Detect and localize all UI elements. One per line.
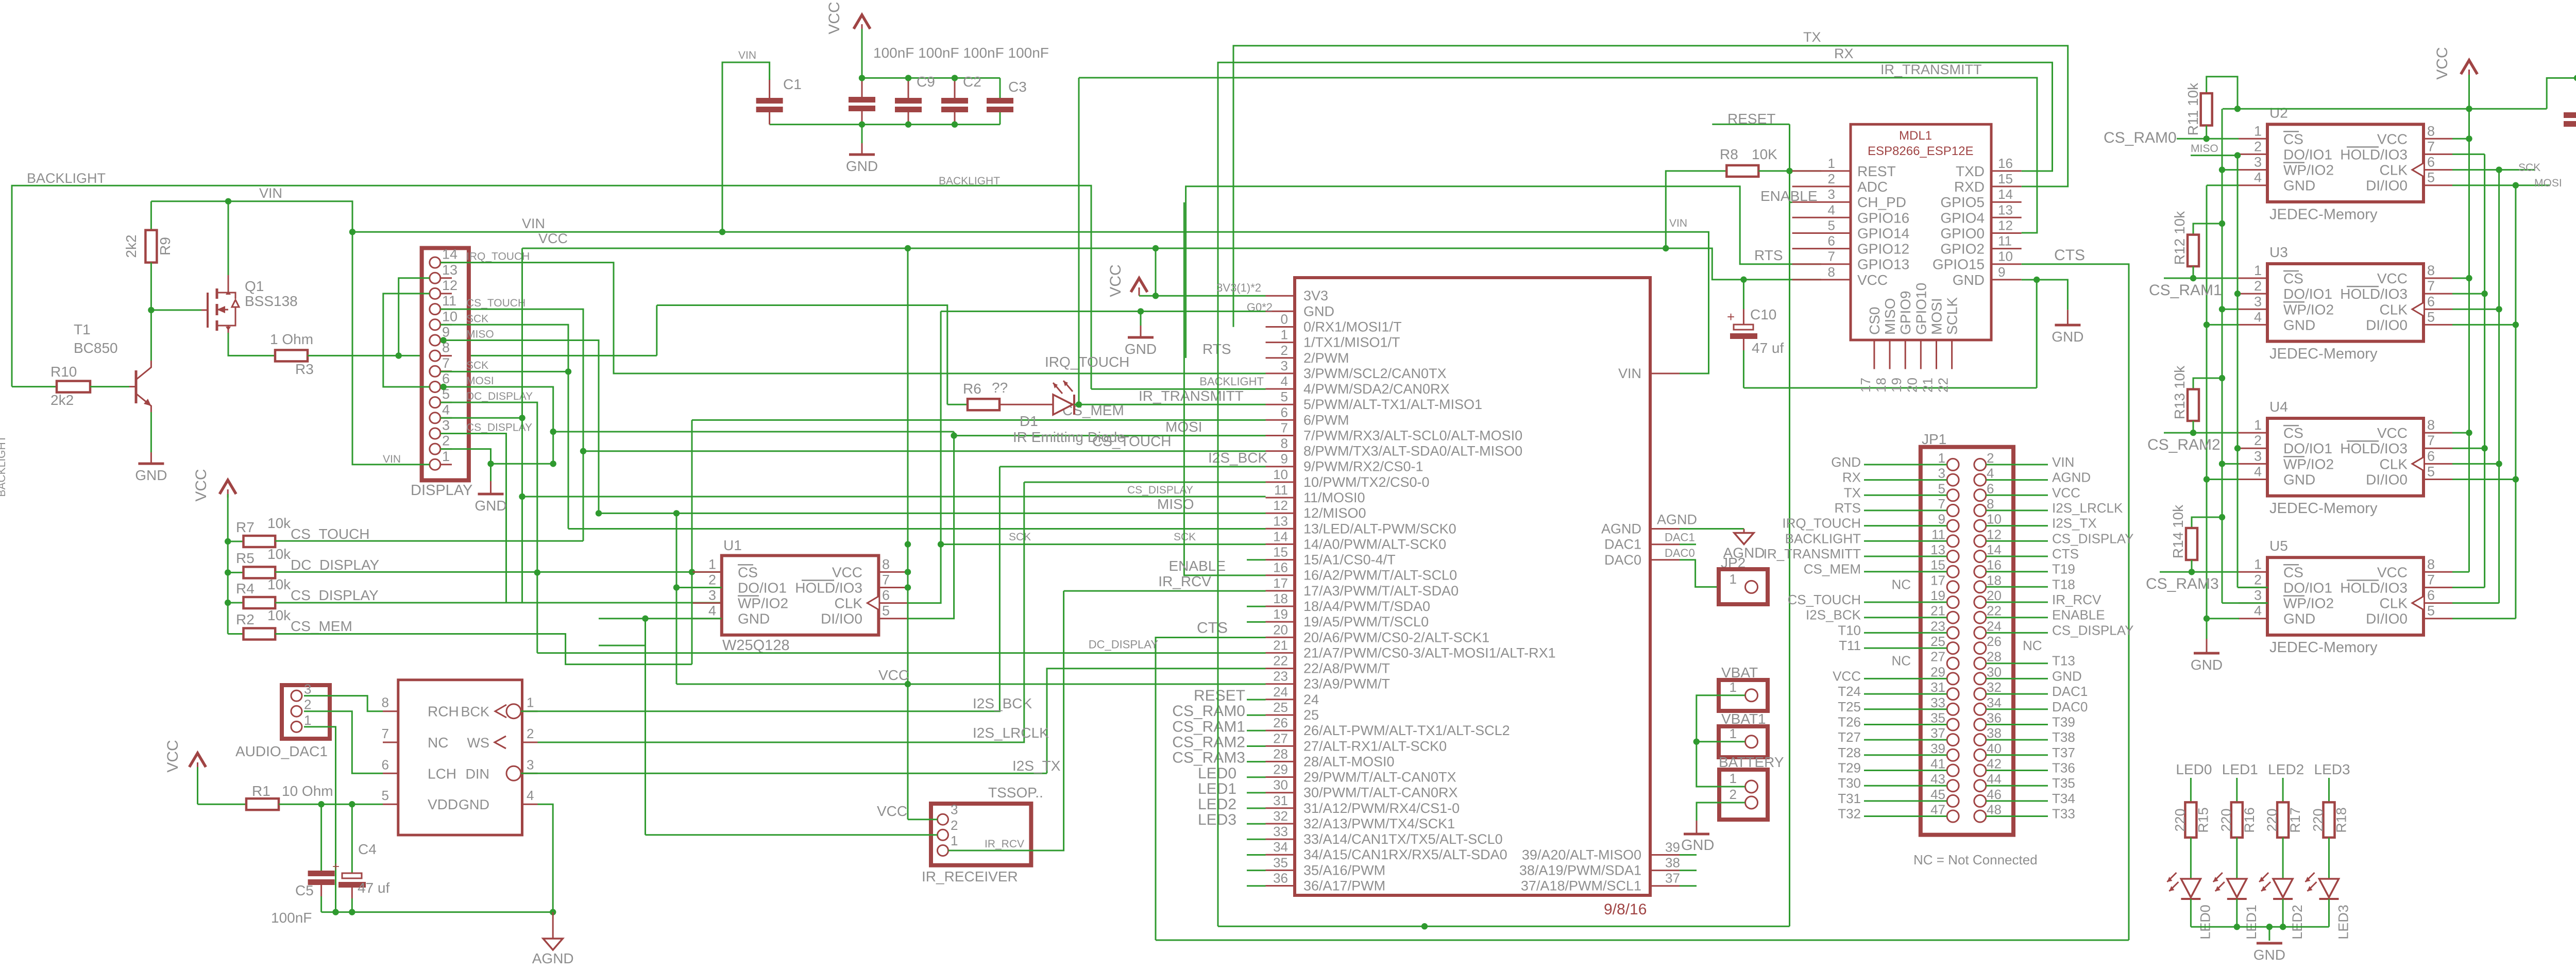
capacitor C9 bbox=[908, 78, 909, 98]
svg-text:33: 33 bbox=[1273, 824, 1288, 839]
svg-text:GPIO9: GPIO9 bbox=[1897, 291, 1913, 335]
MCU row 5/PWM/ALT-TX1/ALT-MISO1 bbox=[1266, 404, 1295, 405]
bottom bus A AGND loop bbox=[1217, 343, 1219, 926]
svg-text:2: 2 bbox=[1987, 450, 1994, 466]
svg-text:GPIO12: GPIO12 bbox=[1857, 241, 1909, 257]
svg-text:C3: C3 bbox=[1008, 79, 1027, 95]
JP1 row 5/6 bbox=[1947, 489, 1959, 501]
wire D1 to MCU pin5 bbox=[1074, 404, 1266, 405]
MCU row 15/A1/CS0-4/T bbox=[1266, 559, 1295, 560]
svg-text:17: 17 bbox=[1930, 572, 1945, 588]
wire IR receiver pin2 bbox=[646, 834, 938, 836]
svg-text:10K: 10K bbox=[1752, 146, 1777, 162]
wire I2S_LRCLK bbox=[538, 482, 1024, 742]
transistor Q1 BSS138 nmos bbox=[207, 293, 209, 328]
MCU row 4/PWM/SDA2/CAN0RX bbox=[1266, 388, 1295, 390]
svg-text:LED3: LED3 bbox=[2314, 761, 2350, 777]
svg-text:LED2: LED2 bbox=[2290, 905, 2305, 940]
svg-text:40: 40 bbox=[1987, 741, 2002, 756]
svg-text:3: 3 bbox=[1938, 466, 1945, 481]
resistor R10 2k2 bbox=[12, 386, 57, 387]
svg-text:IR_RCV: IR_RCV bbox=[985, 838, 1024, 850]
svg-text:14: 14 bbox=[1987, 542, 2002, 557]
U1 pin 8 VCC bbox=[878, 571, 908, 573]
audio DAC pin 3 DIN bbox=[522, 773, 538, 774]
svg-text:3: 3 bbox=[2254, 294, 2262, 309]
svg-text:RX: RX bbox=[1842, 470, 1861, 485]
wire IRQ_TOUCH from pin14 bbox=[440, 263, 1266, 373]
svg-text:1: 1 bbox=[527, 695, 534, 710]
svg-text:4: 4 bbox=[1987, 466, 1994, 481]
svg-text:8: 8 bbox=[882, 556, 890, 572]
svg-text:11: 11 bbox=[442, 293, 456, 309]
svg-text:VCC: VCC bbox=[832, 564, 862, 580]
svg-text:1: 1 bbox=[951, 833, 958, 848]
JP1 row 35/36 bbox=[1947, 719, 1959, 730]
resistor R15 220 bbox=[2185, 802, 2196, 837]
svg-text:LED0: LED0 bbox=[2176, 761, 2212, 777]
svg-text:39: 39 bbox=[1665, 840, 1680, 855]
svg-text:GND: GND bbox=[2283, 472, 2315, 488]
wire MOSI row to MCU bbox=[954, 435, 1266, 436]
svg-text:MISO: MISO bbox=[466, 329, 494, 341]
AGND symbol bbox=[1743, 529, 1745, 533]
svg-text:T1: T1 bbox=[74, 321, 91, 337]
wire SCK pin10 bbox=[440, 325, 568, 529]
svg-text:10 Ohm: 10 Ohm bbox=[282, 783, 333, 799]
svg-text:U5: U5 bbox=[2269, 538, 2288, 554]
wire CS_MEM row bbox=[275, 634, 692, 665]
wire CS_RAM2 bbox=[2164, 432, 2239, 434]
svg-text:5: 5 bbox=[2427, 464, 2435, 480]
svg-text:DIN: DIN bbox=[466, 766, 490, 781]
svg-text:CLK: CLK bbox=[2380, 301, 2408, 317]
svg-text:3: 3 bbox=[527, 757, 534, 772]
svg-text:3V3: 3V3 bbox=[1303, 288, 1328, 303]
svg-text:13: 13 bbox=[1930, 542, 1945, 557]
svg-text:8: 8 bbox=[2427, 123, 2435, 139]
wire HOLD bus bbox=[2484, 154, 2485, 587]
wire RTS bus bbox=[1186, 186, 1821, 358]
MCU row 27/ALT-RX1/ALT-SCK0 bbox=[1266, 745, 1295, 747]
svg-text:BACKLIGHT: BACKLIGHT bbox=[0, 435, 8, 497]
svg-text:4: 4 bbox=[1281, 373, 1288, 389]
svg-text:NC: NC bbox=[1891, 576, 1911, 592]
MCU row 28/ALT-MOSI0 bbox=[1266, 761, 1295, 762]
connector AUDIO_DAC1 bbox=[282, 685, 330, 739]
svg-text:5: 5 bbox=[382, 788, 389, 803]
wire audio pin3 to RCH bbox=[304, 696, 383, 711]
svg-text:GND: GND bbox=[459, 797, 489, 812]
svg-text:HOLD/IO3: HOLD/IO3 bbox=[2340, 580, 2408, 595]
IC U1 W25Q128 bbox=[722, 556, 879, 635]
svg-text:T29: T29 bbox=[1838, 760, 1861, 776]
svg-text:T30: T30 bbox=[1838, 775, 1861, 791]
pad DISPLAY pin 1 bbox=[430, 459, 440, 470]
svg-text:3: 3 bbox=[1281, 358, 1288, 373]
svg-text:DAC1: DAC1 bbox=[1665, 531, 1695, 544]
svg-text:GND: GND bbox=[2052, 668, 2082, 684]
svg-text:CS: CS bbox=[2283, 270, 2303, 286]
svg-text:48: 48 bbox=[1987, 802, 2002, 818]
svg-text:1 Ohm: 1 Ohm bbox=[270, 331, 313, 347]
svg-text:17: 17 bbox=[1273, 575, 1288, 591]
svg-text:100nF 100nF 100nF 100nF: 100nF 100nF 100nF 100nF bbox=[873, 45, 1049, 61]
pad DISPLAY pin 12 bbox=[430, 288, 440, 299]
svg-text:LCH: LCH bbox=[428, 765, 456, 781]
svg-text:??: ?? bbox=[992, 380, 1008, 396]
svg-text:IR_TRANSMITT: IR_TRANSMITT bbox=[1764, 546, 1861, 561]
svg-text:NC: NC bbox=[428, 735, 448, 751]
svg-text:ADC: ADC bbox=[1857, 179, 1888, 195]
svg-text:RCH: RCH bbox=[428, 704, 459, 720]
ESP pin 6 GPIO12 bbox=[1792, 248, 1851, 249]
wire C7 C8 rail bbox=[2547, 78, 2576, 109]
svg-text:LED1: LED1 bbox=[2244, 905, 2259, 940]
svg-text:14: 14 bbox=[1273, 529, 1288, 544]
svg-text:34: 34 bbox=[1273, 839, 1288, 855]
wire T1 emitter to GND bbox=[150, 412, 152, 452]
MCU row 14/A0/PWM/ALT-SCK0 bbox=[1266, 543, 1295, 545]
IC U5 JEDEC-Memory bbox=[2267, 557, 2424, 635]
svg-text:T34: T34 bbox=[2052, 791, 2075, 806]
svg-text:45: 45 bbox=[1930, 787, 1945, 802]
svg-text:T36: T36 bbox=[2052, 760, 2075, 776]
MCU row 32/A13/PWM/TX4/SCK1 bbox=[1266, 823, 1295, 825]
svg-text:6/PWM: 6/PWM bbox=[1303, 412, 1349, 428]
svg-text:VCC: VCC bbox=[2377, 131, 2408, 147]
ESP pin 2 ADC bbox=[1792, 186, 1851, 188]
svg-text:JEDEC-Memory: JEDEC-Memory bbox=[2269, 639, 2378, 656]
svg-text:JEDEC-Memory: JEDEC-Memory bbox=[2269, 346, 2378, 362]
svg-text:WP/IO2: WP/IO2 bbox=[2283, 595, 2334, 611]
wire RX bus bbox=[1218, 62, 2053, 343]
resistor R5 10k DC_DISPLAY bbox=[225, 569, 231, 575]
svg-text:24: 24 bbox=[1273, 684, 1288, 700]
svg-text:22: 22 bbox=[1273, 653, 1288, 669]
svg-text:5: 5 bbox=[882, 603, 890, 619]
wire U1 VCC pin8 bbox=[905, 569, 911, 575]
wire DC_DISPLAY long row pin21 bbox=[537, 652, 1266, 654]
svg-text:16: 16 bbox=[1987, 557, 2002, 573]
wire audio pin1 bbox=[304, 727, 336, 912]
resistor R4 10k CS_DISPLAY bbox=[225, 600, 231, 606]
svg-text:23: 23 bbox=[1273, 669, 1288, 684]
svg-text:BC850: BC850 bbox=[74, 340, 118, 356]
svg-text:VCC: VCC bbox=[878, 667, 909, 683]
JP1 row 37/38 bbox=[1947, 734, 1959, 746]
pad DISPLAY pin 10 bbox=[430, 319, 440, 330]
svg-text:6: 6 bbox=[2427, 448, 2435, 464]
svg-text:8: 8 bbox=[1281, 436, 1288, 451]
svg-text:CS_TOUCH: CS_TOUCH bbox=[291, 526, 370, 542]
svg-text:DC_DISPLAY: DC_DISPLAY bbox=[291, 557, 380, 573]
svg-text:17/A3/PWM/T/ALT-SDA0: 17/A3/PWM/T/ALT-SDA0 bbox=[1303, 583, 1459, 599]
svg-text:LED1: LED1 bbox=[2222, 761, 2258, 777]
resistor R3 1 Ohm bbox=[275, 350, 308, 361]
svg-text:10: 10 bbox=[1987, 512, 2002, 527]
MCU row 18/A4/PWM/T/SDA0 bbox=[1266, 606, 1295, 607]
svg-text:RTS: RTS bbox=[1834, 500, 1861, 516]
pad DISPLAY pin 11 bbox=[430, 304, 440, 315]
svg-text:5: 5 bbox=[1938, 481, 1945, 496]
MCU row 12/MISO0 bbox=[1266, 513, 1295, 514]
svg-text:MOSI: MOSI bbox=[2534, 177, 2562, 189]
wire ESP GND pin9 bbox=[2022, 280, 2068, 310]
power VCC audio bbox=[190, 753, 206, 767]
svg-text:IR_RCV: IR_RCV bbox=[1158, 573, 1211, 589]
wire LED2 column bbox=[2282, 778, 2284, 802]
wire CS_RAM0 bbox=[2177, 138, 2239, 140]
svg-text:CLK: CLK bbox=[2380, 456, 2408, 472]
svg-text:1: 1 bbox=[442, 449, 450, 464]
svg-text:R4: R4 bbox=[236, 581, 255, 597]
wire R6 feed bbox=[656, 305, 657, 356]
svg-text:11/MOSI0: 11/MOSI0 bbox=[1303, 490, 1365, 505]
svg-text:2k2: 2k2 bbox=[123, 234, 139, 258]
svg-text:10k: 10k bbox=[267, 546, 291, 562]
svg-text:CLK: CLK bbox=[835, 595, 863, 611]
svg-text:35: 35 bbox=[1930, 710, 1945, 726]
JP1 row 39/40 bbox=[1947, 749, 1959, 761]
U1 pin 5 DI/IO0 bbox=[878, 618, 908, 619]
svg-text:DI/IO0: DI/IO0 bbox=[2366, 611, 2408, 627]
svg-text:CS_DISPLAY: CS_DISPLAY bbox=[2052, 622, 2133, 638]
ground memory GND bbox=[2206, 639, 2208, 652]
svg-text:35/A16/PWM: 35/A16/PWM bbox=[1303, 862, 1385, 878]
svg-text:C5: C5 bbox=[295, 882, 314, 898]
svg-text:I2S_LRCLK: I2S_LRCLK bbox=[973, 725, 1049, 741]
wire DC_DISPLAY row to U1 pin1 bbox=[275, 571, 722, 573]
svg-text:VIN: VIN bbox=[2052, 454, 2074, 470]
svg-text:28/ALT-MOSI0: 28/ALT-MOSI0 bbox=[1303, 754, 1395, 769]
svg-text:8: 8 bbox=[1987, 496, 1994, 512]
svg-text:20: 20 bbox=[1904, 378, 1920, 393]
svg-text:I2S_BCK: I2S_BCK bbox=[973, 695, 1032, 711]
JP1 row 9/10 bbox=[1947, 520, 1959, 532]
svg-text:2: 2 bbox=[442, 433, 450, 449]
svg-text:CTS: CTS bbox=[2054, 247, 2085, 264]
wire WP bus bbox=[2222, 109, 2223, 603]
svg-text:VCC: VCC bbox=[1857, 272, 1888, 288]
wire VCC trunk to U1 pullups and IR receiver bbox=[907, 248, 909, 820]
svg-text:8: 8 bbox=[2427, 263, 2435, 278]
ground GND under T1 bbox=[138, 463, 164, 465]
svg-text:5: 5 bbox=[2427, 603, 2435, 619]
wire VCC pin4 bbox=[440, 417, 522, 419]
svg-text:9: 9 bbox=[1998, 264, 2005, 280]
svg-text:LED2: LED2 bbox=[1198, 796, 1236, 813]
svg-text:WP/IO2: WP/IO2 bbox=[2283, 301, 2334, 317]
ground GND right of MCU bbox=[1684, 833, 1709, 836]
svg-text:WS: WS bbox=[467, 735, 490, 751]
wire U1 HOLD pin7 bbox=[905, 584, 911, 590]
wire CS_RAM1 bbox=[2164, 278, 2239, 279]
wire CTS pin20 bbox=[1156, 638, 1266, 941]
audio DAC pin 5 VDD bbox=[383, 804, 398, 805]
svg-text:13: 13 bbox=[1273, 513, 1288, 529]
svg-text:AUDIO_DAC1: AUDIO_DAC1 bbox=[235, 743, 328, 759]
svg-text:25: 25 bbox=[1273, 700, 1288, 715]
svg-text:CS: CS bbox=[2283, 425, 2303, 441]
wire VCC bus bbox=[522, 248, 1822, 280]
svg-text:15: 15 bbox=[1273, 544, 1288, 560]
capacitor C5 100nF bbox=[320, 804, 322, 874]
svg-text:16: 16 bbox=[1998, 156, 2013, 171]
wire IR_RCV pin17 bbox=[1064, 590, 1266, 592]
svg-text:7: 7 bbox=[382, 726, 389, 741]
svg-text:GND: GND bbox=[1831, 454, 1861, 470]
wire BACKLIGHT bus bbox=[12, 185, 1091, 389]
svg-text:DAC0: DAC0 bbox=[1604, 552, 1641, 568]
IC MDL1 ESP8266_ESP12E bbox=[1851, 124, 1991, 340]
svg-text:VCC: VCC bbox=[877, 803, 907, 819]
resistor R9 2k2 bbox=[150, 201, 152, 230]
svg-text:Q1: Q1 bbox=[245, 278, 264, 294]
svg-text:34: 34 bbox=[1987, 695, 2002, 710]
svg-text:8: 8 bbox=[382, 695, 389, 710]
svg-text:220: 220 bbox=[2172, 808, 2188, 831]
svg-text:VCC: VCC bbox=[193, 469, 210, 501]
JP1 row 11/12 bbox=[1947, 535, 1959, 547]
transistor T1 BC850 npn bbox=[135, 370, 138, 403]
svg-text:CLK: CLK bbox=[2380, 162, 2408, 178]
svg-text:4: 4 bbox=[2254, 309, 2262, 325]
wire U1 CLK to SCK bbox=[908, 311, 941, 603]
svg-text:5: 5 bbox=[1281, 389, 1288, 404]
wire VCC to cap rail bbox=[861, 29, 863, 78]
svg-text:RESET: RESET bbox=[1727, 111, 1775, 127]
audio DAC pin 4 GND bbox=[522, 804, 538, 805]
pad DISPLAY pin 5 bbox=[430, 397, 440, 408]
svg-text:GND: GND bbox=[2191, 657, 2223, 673]
svg-text:SCLK: SCLK bbox=[1944, 297, 1960, 335]
cap rail top bbox=[862, 77, 1000, 79]
wire audio ground bus bbox=[321, 911, 553, 913]
svg-text:IRQ_TOUCH: IRQ_TOUCH bbox=[1782, 516, 1861, 531]
svg-text:R5: R5 bbox=[236, 550, 255, 566]
svg-text:100nF: 100nF bbox=[271, 910, 312, 926]
JP1 row 31/32 bbox=[1947, 688, 1959, 700]
svg-text:4: 4 bbox=[442, 402, 450, 417]
MCU row 21/A7/PWM/CS0-3/ALT-MOSI1/ALT-RX1 bbox=[1266, 652, 1295, 654]
MCU row 16/A2/PWM/T/ALT-SCL0 bbox=[1266, 574, 1295, 576]
svg-text:DO/IO1: DO/IO1 bbox=[2283, 580, 2332, 595]
svg-text:30: 30 bbox=[1273, 777, 1288, 793]
svg-text:SCK: SCK bbox=[1009, 531, 1031, 543]
resistor R12 10k bbox=[2193, 224, 2222, 235]
svg-text:2: 2 bbox=[1730, 787, 1737, 802]
svg-text:T18: T18 bbox=[2052, 576, 2075, 592]
svg-text:21/A7/PWM/CS0-3/ALT-MOSI1/ALT-: 21/A7/PWM/CS0-3/ALT-MOSI1/ALT-RX1 bbox=[1303, 645, 1556, 660]
svg-text:22: 22 bbox=[1987, 603, 2002, 619]
MCU row 24 bbox=[1266, 699, 1295, 700]
svg-text:BACKLIGHT: BACKLIGHT bbox=[1785, 531, 1861, 546]
wire MISO pin9 bbox=[440, 341, 599, 514]
svg-text:18: 18 bbox=[1273, 591, 1288, 606]
MCU row 0/RX1/MOSI1/T bbox=[1266, 326, 1295, 328]
MCU row 26/ALT-PWM/ALT-TX1/ALT-SCL2 bbox=[1266, 730, 1295, 731]
svg-text:TXD: TXD bbox=[1956, 163, 1985, 179]
MCU row 25 bbox=[1266, 714, 1295, 716]
resistor R6 ?? bbox=[947, 404, 968, 405]
svg-text:27: 27 bbox=[1273, 730, 1288, 746]
svg-text:7/PWM/RX3/ALT-SCL0/ALT-MOSI0: 7/PWM/RX3/ALT-SCL0/ALT-MOSI0 bbox=[1303, 428, 1522, 444]
svg-text:CS_MEM: CS_MEM bbox=[291, 618, 352, 634]
svg-text:SCK: SCK bbox=[466, 360, 488, 371]
MCU row 36/A17/PWM bbox=[1266, 885, 1295, 887]
JP1 row 13/14 bbox=[1947, 551, 1959, 563]
svg-text:VCC: VCC bbox=[164, 740, 181, 772]
wire IR_TRANSMITT bus up bbox=[1078, 78, 1080, 404]
svg-text:36/A17/PWM: 36/A17/PWM bbox=[1303, 878, 1385, 894]
svg-text:41: 41 bbox=[1930, 756, 1945, 772]
svg-text:9/PWM/RX2/CS0-1: 9/PWM/RX2/CS0-1 bbox=[1303, 459, 1423, 474]
resistor R1 10 Ohm bbox=[198, 804, 247, 805]
wire gate bbox=[151, 309, 201, 311]
svg-text:GND: GND bbox=[738, 611, 770, 627]
capacitor C2 bbox=[954, 78, 956, 98]
wire SCK pin7 bbox=[440, 371, 568, 372]
svg-text:23/A9/PWM/T: 23/A9/PWM/T bbox=[1303, 676, 1390, 692]
svg-text:I2S_TX: I2S_TX bbox=[2052, 516, 2097, 531]
svg-text:R3: R3 bbox=[295, 361, 314, 377]
svg-text:9: 9 bbox=[1281, 451, 1288, 467]
power flag VCC top bbox=[854, 15, 870, 29]
power VCC memory bbox=[2461, 60, 2478, 74]
svg-text:T35: T35 bbox=[2052, 775, 2075, 791]
pad DISPLAY pin 9 bbox=[430, 335, 440, 346]
svg-text:GND: GND bbox=[135, 467, 167, 483]
svg-text:CH_PD: CH_PD bbox=[1857, 194, 1906, 210]
svg-text:16: 16 bbox=[1273, 560, 1288, 575]
ESP pin 15 RXD bbox=[1991, 186, 2022, 188]
svg-text:HOLD/IO3: HOLD/IO3 bbox=[795, 580, 862, 596]
svg-text:1: 1 bbox=[2254, 417, 2262, 433]
svg-text:TSSOP..: TSSOP.. bbox=[988, 785, 1043, 801]
svg-text:12: 12 bbox=[1987, 526, 2002, 542]
svg-text:3: 3 bbox=[2254, 155, 2262, 170]
svg-text:CS: CS bbox=[738, 564, 758, 580]
svg-text:2: 2 bbox=[951, 818, 958, 833]
junction dots cap rails bbox=[859, 75, 865, 81]
svg-text:2: 2 bbox=[1828, 171, 1835, 186]
svg-text:GND: GND bbox=[1681, 837, 1714, 854]
IC MCU main bbox=[1295, 278, 1650, 895]
wire BACKLIGHT to pin4 bbox=[1091, 388, 1266, 390]
wire Q1 drain to VIN bbox=[228, 201, 229, 275]
svg-text:GND: GND bbox=[2283, 178, 2315, 194]
svg-text:AGND: AGND bbox=[2052, 470, 2091, 485]
wire IR_TRANSMITT bus bbox=[1079, 78, 2037, 233]
svg-text:3: 3 bbox=[1828, 186, 1835, 202]
audio DAC pin 1 BCK bbox=[522, 710, 538, 712]
wire RESET bbox=[1712, 124, 1789, 125]
svg-text:HOLD/IO3: HOLD/IO3 bbox=[2340, 146, 2408, 162]
ground GND below caps bbox=[861, 125, 863, 143]
svg-text:CS: CS bbox=[2283, 564, 2303, 580]
svg-text:HOLD/IO3: HOLD/IO3 bbox=[2340, 286, 2408, 302]
svg-text:D1: D1 bbox=[1020, 413, 1038, 429]
svg-text:7: 7 bbox=[2427, 433, 2435, 448]
MCU row 23/A9/PWM/T bbox=[1266, 683, 1295, 685]
svg-text:DI/IO0: DI/IO0 bbox=[821, 611, 862, 627]
svg-text:DAC1: DAC1 bbox=[2052, 684, 2088, 699]
wire VCC down display pin4 / CS_DISPLAY collinear bbox=[521, 248, 523, 603]
svg-text:3/PWM/SCL2/CAN0TX: 3/PWM/SCL2/CAN0TX bbox=[1303, 366, 1447, 381]
svg-text:IR_RECEIVER: IR_RECEIVER bbox=[922, 869, 1018, 884]
ground AGND audio bbox=[552, 912, 554, 939]
